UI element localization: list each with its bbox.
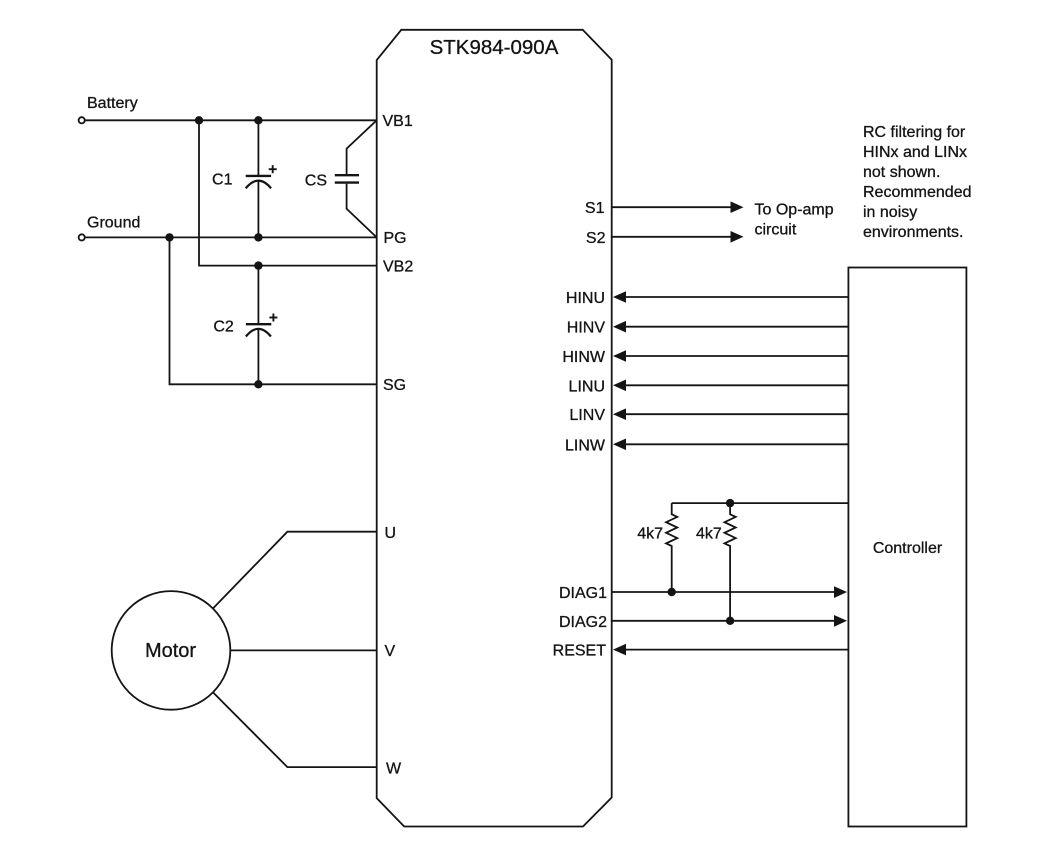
wire V pin to motor <box>230 649 376 651</box>
wire ground to PG <box>85 236 377 238</box>
arrowhead RESET <box>613 644 626 656</box>
svg-text:C1: C1 <box>212 172 233 189</box>
wire HINV <box>625 326 848 328</box>
svg-text:V: V <box>385 643 396 660</box>
svg-text:VB2: VB2 <box>383 259 413 276</box>
wire battery to VB1 <box>85 119 377 121</box>
svg-text:To Op-amp: To Op-amp <box>755 202 834 219</box>
svg-text:Ground: Ground <box>87 215 140 232</box>
junction ground-C1 <box>254 233 262 241</box>
svg-text:DIAG2: DIAG2 <box>559 614 607 631</box>
wire RESET <box>625 649 848 651</box>
svg-text:environments.: environments. <box>863 224 964 241</box>
svg-text:Battery: Battery <box>87 95 138 112</box>
capacitor C1 <box>246 120 277 237</box>
svg-text:STK984-090A: STK984-090A <box>430 36 559 59</box>
svg-text:LINU: LINU <box>569 378 605 395</box>
svg-text:W: W <box>386 761 402 778</box>
junction SG-C2 <box>254 380 262 388</box>
wire DIAG1 <box>612 591 836 593</box>
battery terminal <box>79 117 85 123</box>
arrowhead HINU <box>613 291 626 303</box>
motor M1 body <box>112 591 231 710</box>
svg-text:DIAG1: DIAG1 <box>559 585 607 602</box>
svg-text:CS: CS <box>305 173 327 190</box>
arrowhead HINV <box>613 321 626 333</box>
wire HINW <box>625 355 848 357</box>
arrowhead DIAG2 <box>834 615 847 627</box>
wire LINV <box>625 413 848 415</box>
svg-text:in noisy: in noisy <box>863 204 917 221</box>
arrowhead LINU <box>613 380 626 392</box>
wire S2 to op-amp <box>612 236 733 238</box>
arrowhead S2 <box>731 231 744 243</box>
svg-text:S1: S1 <box>585 200 605 217</box>
arrowhead LINV <box>613 408 626 420</box>
wire DIAG2 <box>612 620 836 622</box>
junction DIAG1-R1 <box>668 588 676 596</box>
junction battery-VB2 <box>195 116 203 124</box>
wire pull-up bus <box>672 502 849 504</box>
svg-text:4k7: 4k7 <box>637 526 663 543</box>
svg-text:VB1: VB1 <box>383 113 413 130</box>
junction VB2-C2 <box>254 261 262 269</box>
svg-text:Controller: Controller <box>873 540 943 557</box>
ground terminal <box>79 234 85 240</box>
svg-text:U: U <box>385 525 397 542</box>
svg-text:C2: C2 <box>213 319 234 336</box>
svg-text:PG: PG <box>384 230 407 247</box>
svg-text:HINV: HINV <box>567 320 606 337</box>
svg-text:HINU: HINU <box>566 290 605 307</box>
wire ground to SG <box>170 237 377 384</box>
wire LINU <box>625 384 848 386</box>
wire LINW <box>625 443 848 445</box>
junction battery-C1 <box>254 116 262 124</box>
IC U1 STK984-090A body <box>377 30 612 827</box>
capacitor C2 <box>246 266 278 385</box>
wire HINU <box>625 296 848 298</box>
resistor R2 4k7 <box>725 503 736 621</box>
arrowhead LINW <box>613 439 626 451</box>
arrowhead DIAG1 <box>834 586 847 598</box>
wire W pin to motor <box>213 692 377 767</box>
svg-text:4k7: 4k7 <box>696 526 722 543</box>
svg-text:HINW: HINW <box>562 349 606 366</box>
svg-text:LINV: LINV <box>569 407 605 424</box>
capacitor CS <box>335 120 377 237</box>
controller block body <box>848 268 966 827</box>
note RC filtering <box>863 124 972 241</box>
wire battery to VB2 <box>199 120 377 265</box>
svg-text:S2: S2 <box>586 230 606 247</box>
svg-text:circuit: circuit <box>755 222 797 239</box>
junction DIAG2-R2 <box>726 617 734 625</box>
arrowhead HINW <box>613 350 626 362</box>
svg-text:LINW: LINW <box>565 437 606 454</box>
wire S1 to op-amp <box>612 206 733 208</box>
resistor R1 4k7 <box>666 503 677 592</box>
svg-text:Motor: Motor <box>145 640 196 662</box>
arrowhead S1 <box>731 201 744 213</box>
svg-text:not shown.: not shown. <box>863 164 940 181</box>
svg-text:RESET: RESET <box>553 643 607 660</box>
wire U pin to motor <box>213 532 377 609</box>
svg-text:HINx and LINx: HINx and LINx <box>863 144 967 161</box>
svg-text:RC filtering for: RC filtering for <box>863 124 966 141</box>
junction pullup-R2 <box>726 499 734 507</box>
svg-text:SG: SG <box>383 377 406 394</box>
junction ground-SG <box>165 233 173 241</box>
svg-text:Recommended: Recommended <box>863 184 972 201</box>
